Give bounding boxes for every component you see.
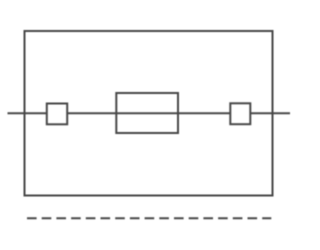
fuse F1 body [116, 93, 178, 133]
mounting rail (dashed line) [27, 217, 271, 219]
terminal block housing outline [25, 31, 273, 196]
clamp terminal 2 (right square) [230, 103, 250, 124]
wire [8, 112, 291, 114]
clamp terminal 1 (left square) [47, 104, 67, 125]
